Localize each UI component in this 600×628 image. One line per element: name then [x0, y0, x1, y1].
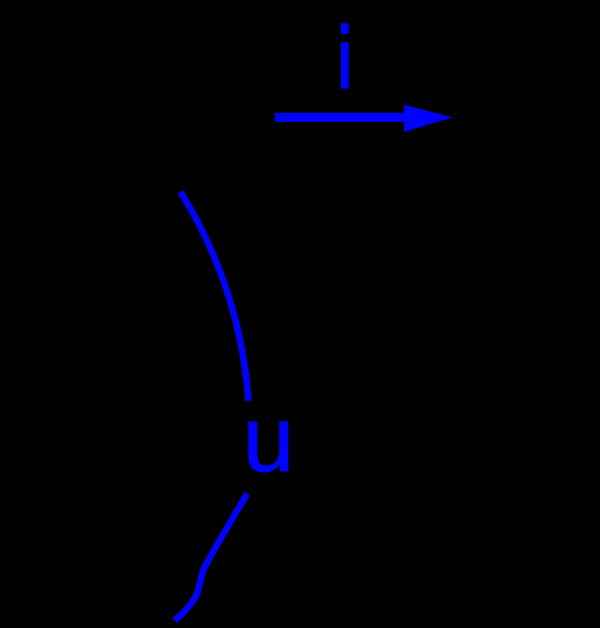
voltage arc upper segment (u arrow) — [180, 192, 248, 401]
wire right — [498, 118, 502, 620]
label i — [341, 23, 349, 88]
wire left upper — [98, 118, 102, 330]
svg-text:u: u — [243, 387, 294, 491]
voltage arc lower segment (u arrow tail) — [175, 494, 248, 621]
wire left lower — [98, 480, 102, 620]
wire bottom — [100, 618, 500, 622]
wire top (node A to node B) — [100, 116, 500, 120]
node C — [95, 615, 105, 625]
node B — [495, 113, 505, 123]
node A — [95, 113, 105, 123]
label u — [243, 387, 294, 491]
current arrow i — [275, 105, 453, 132]
resistor R (load two-pole) — [70, 330, 130, 480]
